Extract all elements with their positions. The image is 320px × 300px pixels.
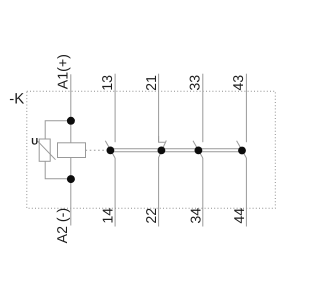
- wire A2 bottom: [70, 158, 72, 226]
- mechanical bar double line: [110, 148, 242, 150]
- varistor diagonal: [38, 141, 56, 160]
- svg-text:-K: -K: [9, 91, 24, 108]
- junction node A1-varistor: [67, 117, 75, 125]
- enclosure dotted border: [27, 91, 275, 208]
- junction node A2-varistor: [67, 175, 75, 183]
- contact node 33: [195, 147, 203, 155]
- contact blade 33-34: [193, 141, 203, 158]
- svg-text:A1(+): A1(+): [56, 54, 72, 89]
- wire varistor branch bottom: [45, 161, 71, 178]
- svg-text:33: 33: [188, 75, 204, 91]
- wire terminal 13: [114, 74, 116, 143]
- coil K rectangle: [58, 143, 86, 158]
- svg-text:13: 13: [100, 75, 116, 91]
- svg-text:22: 22: [144, 208, 160, 224]
- wire terminal 43: [245, 74, 247, 143]
- wire A1 top: [70, 74, 72, 143]
- wire terminal 44: [245, 158, 247, 227]
- wire terminal 21: [158, 74, 160, 143]
- wire varistor branch top: [45, 121, 71, 139]
- contact node 13: [107, 147, 115, 155]
- wire terminal 22: [158, 157, 160, 226]
- varistor rectangle: [39, 139, 50, 161]
- svg-text:44: 44: [232, 208, 248, 224]
- svg-text:A2 (-): A2 (-): [55, 208, 71, 243]
- svg-text:43: 43: [231, 75, 247, 91]
- dotted actuator link from coil: [86, 149, 108, 151]
- wire terminal 34: [202, 158, 204, 227]
- svg-text:U: U: [31, 136, 38, 147]
- contact blade 13-14: [105, 141, 115, 158]
- wire terminal 33: [202, 74, 204, 143]
- contact node 43: [238, 147, 246, 155]
- contact node 21: [158, 147, 166, 155]
- wire terminal 14: [114, 158, 116, 227]
- contact blade 21-22 (NC): [159, 141, 167, 158]
- contact blade 43-44: [237, 141, 247, 158]
- contact seat 21 (NC): [159, 136, 165, 142]
- svg-text:34: 34: [188, 208, 204, 224]
- svg-text:14: 14: [100, 208, 116, 224]
- svg-text:21: 21: [144, 75, 160, 91]
